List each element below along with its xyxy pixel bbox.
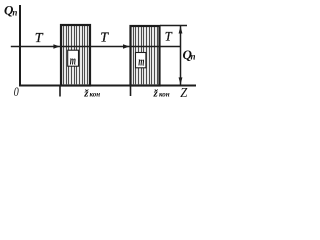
svg-text:п: п (191, 52, 196, 62)
svg-text:m: m (70, 52, 76, 67)
svg-text:T: T (35, 31, 44, 46)
svg-text:T: T (165, 30, 173, 44)
svg-text:кон: кон (159, 90, 170, 98)
svg-text:п: п (12, 8, 17, 18)
svg-text:кон: кон (90, 90, 101, 98)
svg-text:T: T (100, 31, 109, 46)
svg-text:z̆: z̆ (83, 87, 89, 99)
svg-text:m: m (138, 54, 144, 69)
svg-text:Z: Z (180, 86, 187, 101)
svg-text:z̆: z̆ (153, 87, 159, 99)
svg-text:0: 0 (14, 84, 19, 99)
